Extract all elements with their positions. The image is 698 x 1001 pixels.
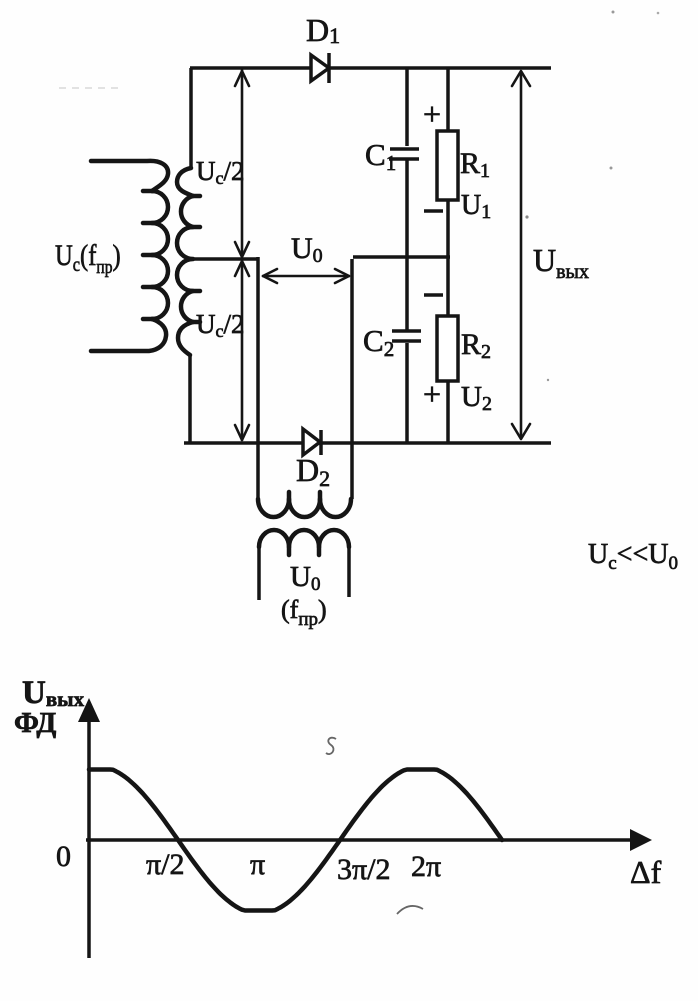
svg-text:C2: C2	[363, 323, 394, 361]
svg-text:U0: U0	[291, 232, 323, 267]
svg-text:Uc/2: Uc/2	[196, 156, 245, 188]
svg-text:2π: 2π	[411, 850, 441, 883]
svg-text:D1: D1	[306, 12, 340, 48]
svg-text:U1: U1	[461, 190, 491, 223]
svg-text:+: +	[423, 96, 441, 132]
svg-text:(fпр): (fпр)	[281, 595, 327, 630]
svg-text:D2: D2	[296, 452, 330, 491]
svg-text:Uc<<U0: Uc<<U0	[588, 539, 678, 574]
svg-text:U0: U0	[290, 561, 320, 595]
svg-text:π: π	[250, 848, 265, 881]
svg-text:Uвых: Uвых	[22, 675, 85, 711]
svg-text:0: 0	[56, 840, 71, 873]
svg-text:π/2: π/2	[146, 848, 184, 881]
svg-text:Uвых: Uвых	[533, 242, 589, 283]
svg-text:ФД: ФД	[14, 707, 56, 739]
svg-text:Uc/2: Uc/2	[196, 309, 245, 341]
svg-text:R2: R2	[461, 328, 491, 363]
svg-text:3π/2: 3π/2	[337, 853, 390, 886]
svg-text:Δf: Δf	[630, 854, 662, 890]
svg-text:Uc(fпр): Uc(fпр)	[55, 239, 121, 278]
svg-text:C1: C1	[365, 137, 396, 175]
svg-text:U2: U2	[461, 381, 492, 415]
svg-text:+: +	[423, 376, 441, 412]
svg-text:R1: R1	[460, 147, 490, 182]
